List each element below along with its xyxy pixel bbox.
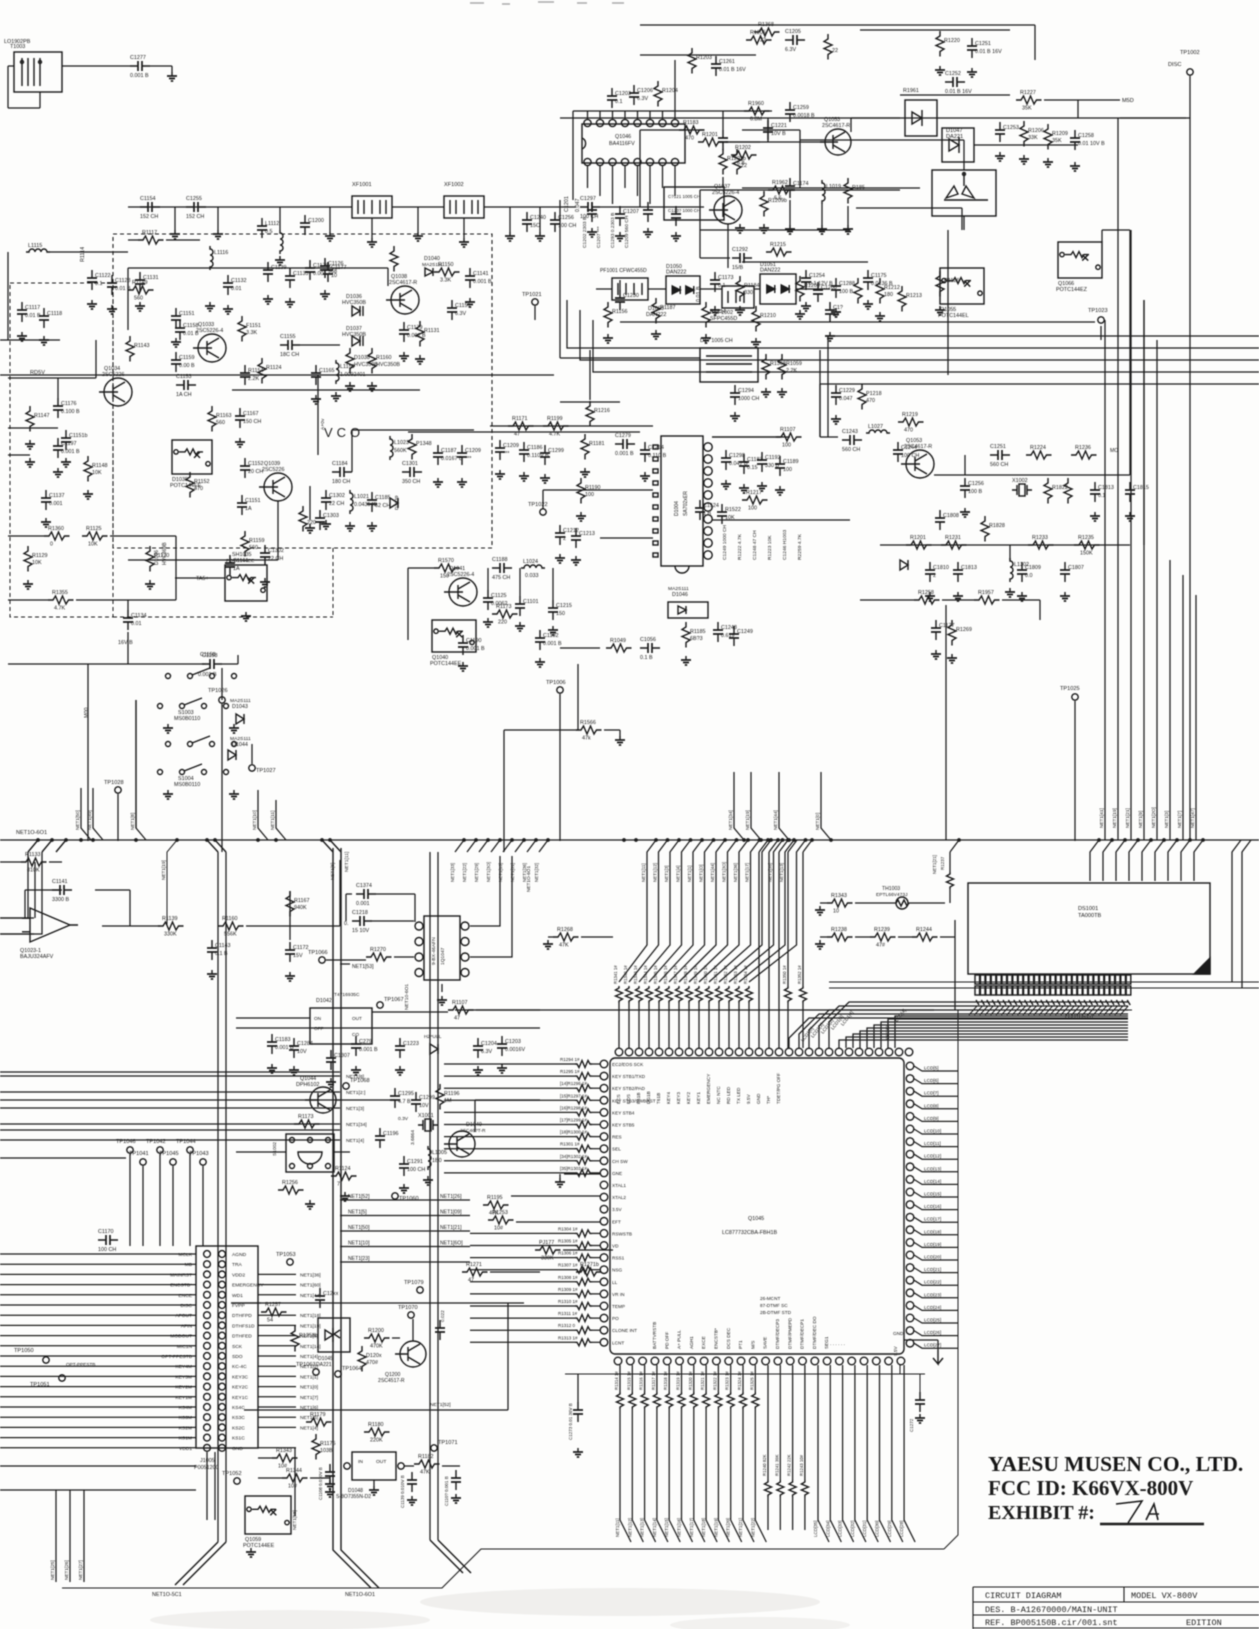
- resistor R1309: [575, 1290, 592, 1297]
- wire: [0, 1099, 340, 1101]
- wire: [722, 111, 724, 130]
- wire outline bottom left: [62, 1549, 944, 1588]
- wire: [592, 1111, 600, 1113]
- svg-text:C279: C279: [359, 1039, 372, 1045]
- svg-text:R1270: R1270: [370, 947, 386, 953]
- ground: [761, 388, 771, 397]
- wire: [572, 111, 574, 200]
- svg-text:OPT-PPESTB: OPT-PPESTB: [66, 1362, 95, 1367]
- ground: [515, 622, 525, 631]
- svg-text:R1244: R1244: [916, 927, 932, 933]
- svg-text:MB: MB: [185, 1262, 192, 1268]
- svg-text:810K: 810K: [27, 868, 40, 874]
- ground: [458, 662, 468, 671]
- svg-text:L1027: L1027: [868, 424, 883, 430]
- wire: [612, 111, 614, 119]
- wire: [880, 1365, 891, 1542]
- ground: [145, 580, 155, 589]
- pin D1047 left 1: [415, 922, 423, 930]
- wire: [1074, 701, 1076, 841]
- test point TP1079: [417, 1287, 423, 1293]
- svg-text:FCC ID: K66VX-800V: FCC ID: K66VX-800V: [988, 1476, 1193, 1500]
- svg-text:GND: GND: [232, 1446, 243, 1452]
- wire: [463, 218, 465, 238]
- svg-text:TP1064: TP1064: [342, 1366, 362, 1372]
- svg-text:R1148: R1148: [92, 463, 107, 469]
- wire: [470, 1293, 575, 1295]
- svg-text:TH*: TH*: [766, 1096, 771, 1104]
- svg-text:POTC144EZ: POTC144EZ: [1056, 287, 1088, 293]
- crystal filter XF1002: [444, 196, 484, 218]
- pin J1005 row 4: [204, 1281, 211, 1288]
- svg-text:C1291: C1291: [407, 1159, 423, 1165]
- svg-text:LCD[26]: LCD[26]: [924, 1330, 941, 1335]
- capacitor C1177: [323, 262, 333, 282]
- wire LCD pin slant: [1115, 1006, 1123, 1015]
- resistor R1343: [827, 899, 853, 907]
- wire: [914, 1230, 958, 1235]
- svg-text:R1960: R1960: [748, 101, 764, 107]
- wire LCD fan: [829, 1002, 1128, 1048]
- svg-text:100 B: 100 B: [839, 289, 853, 295]
- wire LCD bus: [968, 1009, 1132, 1011]
- pin top 14 Q1045: [745, 1048, 753, 1056]
- wire: [787, 852, 789, 986]
- ground: [433, 478, 443, 487]
- pin right LCD[19] Q1045: [906, 1239, 914, 1247]
- ground: [603, 334, 613, 343]
- svg-text:6.6: 6.6: [774, 196, 782, 202]
- wire: [819, 350, 821, 437]
- svg-text:NET1[17]: NET1[17]: [745, 863, 750, 882]
- wire: [767, 118, 769, 142]
- wire: [476, 1009, 540, 1011]
- pin left 5 Q1045: [600, 1109, 608, 1117]
- wire: [559, 1174, 561, 1178]
- test point TP1052: [234, 1478, 240, 1484]
- svg-text:560K: 560K: [394, 448, 407, 454]
- svg-text:P1218: P1218: [866, 391, 882, 397]
- wire: [289, 891, 291, 940]
- wire: [914, 1242, 958, 1247]
- svg-text:KS1M: KS1M: [179, 1436, 192, 1442]
- svg-text:0.001 B: 0.001 B: [615, 451, 634, 457]
- svg-text:2SC4517-R: 2SC4517-R: [378, 1378, 405, 1384]
- wire: [345, 894, 347, 921]
- pin J1005 row 11: [204, 1353, 211, 1360]
- svg-text:220: 220: [307, 520, 316, 526]
- capacitor C1207: [615, 206, 625, 226]
- svg-text:D1046: D1046: [672, 592, 688, 598]
- wire right rail: [1156, 340, 1158, 840]
- wire: [25, 889, 62, 891]
- svg-text:NET1[10]: NET1[10]: [348, 1241, 370, 1247]
- svg-text:EMERGENCY: EMERGENCY: [232, 1283, 264, 1289]
- resistor R1270: [366, 953, 392, 961]
- svg-text:SFPC455D: SFPC455D: [710, 316, 737, 322]
- svg-text:CH SW: CH SW: [612, 1159, 628, 1164]
- pin bottom 18 Q1045: [823, 1357, 831, 1365]
- wire: [236, 1027, 540, 1029]
- svg-text:R1222 4.7K: R1222 4.7K: [737, 533, 743, 560]
- svg-text:NET1[36]: NET1[36]: [300, 1272, 321, 1278]
- svg-text:LCD[32]: LCD[32]: [850, 1520, 855, 1537]
- capacitor C1252: [945, 77, 965, 87]
- svg-text:C1204: C1204: [481, 1041, 497, 1047]
- wire: [914, 1205, 958, 1210]
- svg-text:C1273 0.01 36V B: C1273 0.01 36V B: [568, 1403, 573, 1440]
- wire: [860, 599, 914, 601]
- svg-text:DS1001: DS1001: [1078, 906, 1098, 912]
- wire stub left B: [0, 852, 42, 934]
- svg-text:AGND: AGND: [232, 1252, 247, 1258]
- pin left 4 Q1045: [600, 1097, 608, 1105]
- resistor F1151: [238, 316, 246, 342]
- test point TP1022: [540, 509, 546, 515]
- test point TP1067: [377, 1002, 383, 1008]
- svg-text:C?121 1005 CH: C?121 1005 CH: [668, 194, 700, 199]
- resistor R1311: [575, 1315, 592, 1322]
- svg-text:0.001 B: 0.001 B: [473, 279, 492, 285]
- scan mark top: [470, 2, 624, 4]
- svg-text:3300 B: 3300 B: [52, 897, 69, 903]
- svg-text:C1203: C1203: [505, 1039, 521, 1045]
- svg-text:NET1[3O]: NET1[3O]: [722, 862, 727, 882]
- svg-text:S1002: S1002: [272, 1142, 278, 1156]
- wire: [742, 1365, 744, 1392]
- svg-text:0.001 B: 0.001 B: [359, 1047, 378, 1053]
- resistor PJ177: [535, 1246, 561, 1254]
- wire: [674, 60, 676, 111]
- svg-text:GND: GND: [756, 1093, 761, 1104]
- svg-text:PD OFF: PD OFF: [664, 1332, 669, 1349]
- svg-text:R1224: R1224: [1030, 445, 1046, 451]
- svg-text:R2259 4.7K: R2259 4.7K: [797, 533, 803, 560]
- svg-text:R1173: R1173: [298, 1114, 313, 1120]
- svg-text:LCD[20]: LCD[20]: [924, 1255, 941, 1260]
- wire LCD fan: [819, 1006, 1128, 1048]
- wire bus tap below: [455, 840, 464, 852]
- wire: [174, 207, 176, 230]
- svg-text:10K: 10K: [88, 542, 98, 548]
- wire: [867, 1365, 878, 1542]
- capacitor C1297: [580, 202, 600, 212]
- resistor R1314: [617, 1392, 624, 1409]
- svg-text:R1314 1#: R1314 1#: [614, 1371, 619, 1390]
- svg-text:LCD[8]: LCD[8]: [924, 1103, 939, 1108]
- svg-text:A+ PULL: A+ PULL: [677, 1330, 682, 1349]
- wire: [718, 1409, 729, 1542]
- wire: [755, 1409, 766, 1542]
- resistor R1199: [543, 422, 569, 430]
- resistor R1196: [436, 1084, 444, 1110]
- svg-text:0.001 B: 0.001 B: [466, 646, 485, 652]
- svg-text:C1190: C1190: [466, 638, 481, 644]
- test point TP1060: [392, 1193, 398, 1199]
- ground: [320, 290, 330, 299]
- svg-text:LCD[15]: LCD[15]: [924, 1192, 941, 1197]
- wire bus tap below: [467, 840, 476, 852]
- svg-text:TP1028: TP1028: [104, 780, 124, 786]
- wire LCD pin slant: [1050, 1006, 1058, 1015]
- svg-text:NET1[0]: NET1[0]: [815, 813, 820, 830]
- resistor R1124: [331, 1172, 357, 1180]
- wire rail: [819, 384, 821, 437]
- transistor D1049: [449, 1131, 475, 1157]
- wire: [974, 144, 1078, 146]
- capacitor: [915, 1392, 925, 1412]
- svg-text:0.01 B 16V: 0.01 B 16V: [719, 67, 746, 73]
- wire: [221, 668, 223, 700]
- svg-text:1 B: 1 B: [703, 511, 711, 517]
- svg-text:R1318 1#: R1318 1#: [663, 1371, 668, 1390]
- resistor R1343: [272, 1454, 298, 1462]
- wire rail to TP1002: [560, 117, 1186, 119]
- svg-text:C1108 0.010V B: C1108 0.010V B: [318, 1467, 323, 1500]
- ground: [953, 592, 963, 601]
- wire rail: [1129, 230, 1131, 475]
- capacitor C1196: [375, 1128, 385, 1148]
- wire rail: [580, 310, 1259, 360]
- ground: [795, 310, 805, 319]
- svg-text:KS1C: KS1C: [232, 1436, 245, 1442]
- resistor R1319: [678, 1392, 685, 1409]
- svg-text:NET1[34]: NET1[34]: [728, 810, 733, 830]
- svg-text:R1301 1#: R1301 1#: [560, 1142, 580, 1147]
- svg-text:R1202: R1202: [735, 145, 751, 151]
- resistor R1350: [785, 986, 792, 1003]
- svg-text:470#: 470#: [366, 1360, 378, 1366]
- wire: [8, 663, 205, 665]
- resistor R1184: [736, 276, 744, 302]
- svg-text:NET1[7]: NET1[7]: [300, 1395, 319, 1401]
- ground: [777, 388, 787, 397]
- wire LCD pin slant: [1061, 1006, 1069, 1015]
- capacitor C1254: [801, 270, 811, 290]
- svg-text:C1249: C1249: [737, 629, 753, 635]
- resistor R1213: [898, 286, 906, 312]
- wire: [110, 535, 176, 537]
- pin top 7 Q1045: [675, 1048, 683, 1056]
- svg-text:R1215: R1215: [770, 242, 786, 248]
- svg-text:15V: 15V: [293, 953, 303, 959]
- svg-text:470K: 470K: [370, 1344, 383, 1350]
- svg-text:C1173: C1173: [718, 275, 733, 281]
- capacitor C1277: [130, 61, 150, 71]
- svg-text:10: 10: [331, 273, 337, 279]
- svg-text:SDO: SDO: [232, 1354, 243, 1360]
- wire LCD pin slant: [991, 1006, 999, 1015]
- wire: [0, 1447, 196, 1449]
- svg-text:LCNT: LCNT: [612, 1340, 624, 1345]
- wire: [700, 189, 900, 191]
- svg-text:C1185: C1185: [375, 495, 390, 501]
- pin top 26 Q1045: [865, 1048, 873, 1056]
- svg-text:1B0: 1B0: [432, 1158, 442, 1164]
- resistor R1238: [827, 933, 853, 941]
- capacitor C1184: [332, 467, 352, 477]
- svg-text:LCD[35]: LCD[35]: [813, 1520, 818, 1537]
- svg-text:[16]R1298 1#: [16]R1298 1#: [560, 1105, 588, 1110]
- capacitor C1248: [713, 622, 723, 642]
- svg-text:R1182: R1182: [418, 1454, 433, 1460]
- svg-text:9.5V: 9.5V: [893, 1345, 898, 1356]
- svg-text:RSS1: RSS1: [612, 1256, 625, 1261]
- svg-text:R1315 1#: R1315 1#: [626, 1371, 631, 1390]
- wire: [0, 1386, 196, 1388]
- svg-text:KEY3M: KEY3M: [175, 1374, 192, 1380]
- capacitor C1192: [535, 630, 545, 650]
- wire: [847, 206, 849, 225]
- ground: [555, 554, 565, 563]
- svg-text:180 CH: 180 CH: [332, 479, 350, 485]
- svg-text:NSG: NSG: [612, 1268, 623, 1273]
- svg-text:C1172: C1172: [293, 945, 308, 951]
- svg-text:NET1[O]: NET1[O]: [699, 864, 704, 882]
- svg-text:HVC350B: HVC350B: [342, 300, 366, 306]
- svg-text:R1344: R1344: [286, 1468, 302, 1474]
- svg-text:0.1 B: 0.1 B: [215, 951, 228, 957]
- wire: [596, 288, 612, 290]
- ground: [285, 298, 295, 307]
- svg-text:0.1: 0.1: [615, 99, 623, 105]
- ground: [757, 482, 767, 491]
- svg-text:560 CH: 560 CH: [990, 462, 1008, 468]
- resistor R1360: [44, 532, 70, 540]
- svg-text:POTC144EL: POTC144EL: [938, 313, 969, 319]
- wire: [592, 1232, 600, 1234]
- wire: [237, 655, 239, 664]
- wire: [725, 141, 825, 143]
- capacitor C1122: [87, 270, 97, 290]
- pin right LCD[24] Q1045: [906, 1302, 914, 1310]
- wire: [0, 1071, 340, 1073]
- wire: [914, 1192, 958, 1197]
- wire: [8, 599, 48, 601]
- pin J1005 row 12: [204, 1363, 211, 1370]
- wire: [407, 568, 409, 640]
- resistor R1152: [186, 472, 194, 498]
- wire: [442, 1465, 460, 1467]
- wire: [717, 1365, 719, 1392]
- resistor R1368: [762, 354, 770, 380]
- pin 16 Q1046: [584, 158, 591, 165]
- wire right rail: [1195, 595, 1197, 840]
- svg-text:C1?: C1?: [833, 305, 843, 311]
- resistor [17]R1299: [575, 1121, 592, 1128]
- svg-text:C1251: C1251: [975, 41, 991, 47]
- svg-text:DA221: DA221: [316, 1362, 332, 1368]
- wire VCO top rail: [128, 267, 388, 269]
- resistor R1206: [1020, 121, 1028, 147]
- wire: [914, 1305, 958, 1310]
- svg-text:T4716935C: T4716935C: [334, 992, 360, 998]
- pin J1005 row 5: [204, 1291, 211, 1298]
- wire: [0, 1263, 196, 1265]
- wire: [0, 1129, 340, 1131]
- svg-text:POTC144EE: POTC144EE: [243, 1543, 275, 1549]
- svg-text:R1243 10#: R1243 10#: [799, 1454, 804, 1476]
- resistor R1271: [462, 1268, 488, 1276]
- svg-text:TP1026: TP1026: [208, 688, 228, 694]
- pin 6 D1004: [704, 503, 712, 511]
- wire LCD pin slant: [1012, 1006, 1020, 1015]
- wire: [1009, 545, 1011, 560]
- wire: [128, 559, 278, 561]
- wire LCD pin slant: [969, 1006, 977, 1015]
- wire rail slant A: [175, 1542, 226, 1585]
- svg-text:NET1[22]: NET1[22]: [462, 863, 467, 882]
- svg-text:330: 330: [744, 290, 753, 296]
- wire LCD fan: [789, 1018, 1128, 1048]
- svg-text:LCD[12]: LCD[12]: [924, 1154, 941, 1159]
- resistor R1271: [576, 1268, 602, 1276]
- wire MCU feeder: [709, 840, 760, 982]
- pin D1047 left 2: [415, 938, 423, 946]
- pin left 16 Q1045: [600, 1242, 608, 1250]
- pin top 5 Q1045: [655, 1048, 663, 1056]
- svg-text:NET1O-6O1: NET1O-6O1: [16, 830, 47, 836]
- svg-text:C1174: C1174: [793, 181, 808, 187]
- wire: [954, 937, 956, 1010]
- svg-text:BA4116FV: BA4116FV: [609, 141, 635, 147]
- svg-text:C1134: C1134: [131, 613, 146, 619]
- capacitor C1165: [311, 365, 321, 385]
- capacitor C1256: [960, 478, 970, 498]
- pin left 20 Q1045: [600, 1290, 608, 1298]
- svg-text:1A: 1A: [245, 506, 252, 512]
- svg-text:R1179: R1179: [310, 1412, 325, 1418]
- svg-text:DTHFS1D: DTHFS1D: [232, 1323, 255, 1329]
- resistor R1139: [158, 922, 184, 930]
- svg-text:10#: 10#: [288, 1484, 297, 1490]
- wire: [258, 1324, 296, 1326]
- wire: [503, 730, 505, 852]
- wire: [0, 1437, 196, 1439]
- ground: [459, 238, 469, 247]
- svg-text:NET1[11]: NET1[11]: [270, 811, 275, 830]
- svg-text:XF1002: XF1002: [444, 182, 464, 188]
- wire: [914, 1104, 958, 1109]
- svg-text:R1344 1#: R1344 1#: [643, 965, 648, 984]
- svg-text:NET1[21]: NET1[21]: [738, 1518, 743, 1537]
- svg-text:2: 2: [563, 536, 566, 542]
- ground: [399, 1184, 409, 1193]
- wire: [904, 1365, 915, 1542]
- svg-text:R1343 1#: R1343 1#: [633, 965, 638, 984]
- svg-text:VR IN: VR IN: [612, 1292, 625, 1297]
- svg-text:NET1[32]: NET1[32]: [534, 863, 539, 882]
- svg-text:6B?3: 6B?3: [690, 636, 703, 642]
- capacitor C1307: [326, 1050, 336, 1070]
- pin J1005 row 7: [204, 1312, 211, 1319]
- svg-text:C1292: C1292: [732, 247, 748, 253]
- svg-text:R1124: R1124: [266, 365, 281, 371]
- svg-text:R1200: R1200: [368, 1328, 384, 1334]
- test point TP1066: [319, 957, 325, 963]
- pin bottom 3 Q1045: [639, 1357, 647, 1365]
- wire LCD pin slant: [996, 1006, 1004, 1015]
- capacitor C1190: [458, 635, 468, 655]
- svg-text:6.3V: 6.3V: [785, 47, 796, 53]
- pin bottom 1 Q1045: [614, 1357, 622, 1365]
- pin top 13 Q1045: [735, 1048, 743, 1056]
- wire bus taps far left: [28, 840, 66, 852]
- ground: [325, 232, 335, 241]
- svg-text:DPH6102: DPH6102: [296, 1082, 319, 1088]
- svg-text:C1151: C1151: [455, 303, 470, 309]
- wire bus tap below: [788, 840, 797, 852]
